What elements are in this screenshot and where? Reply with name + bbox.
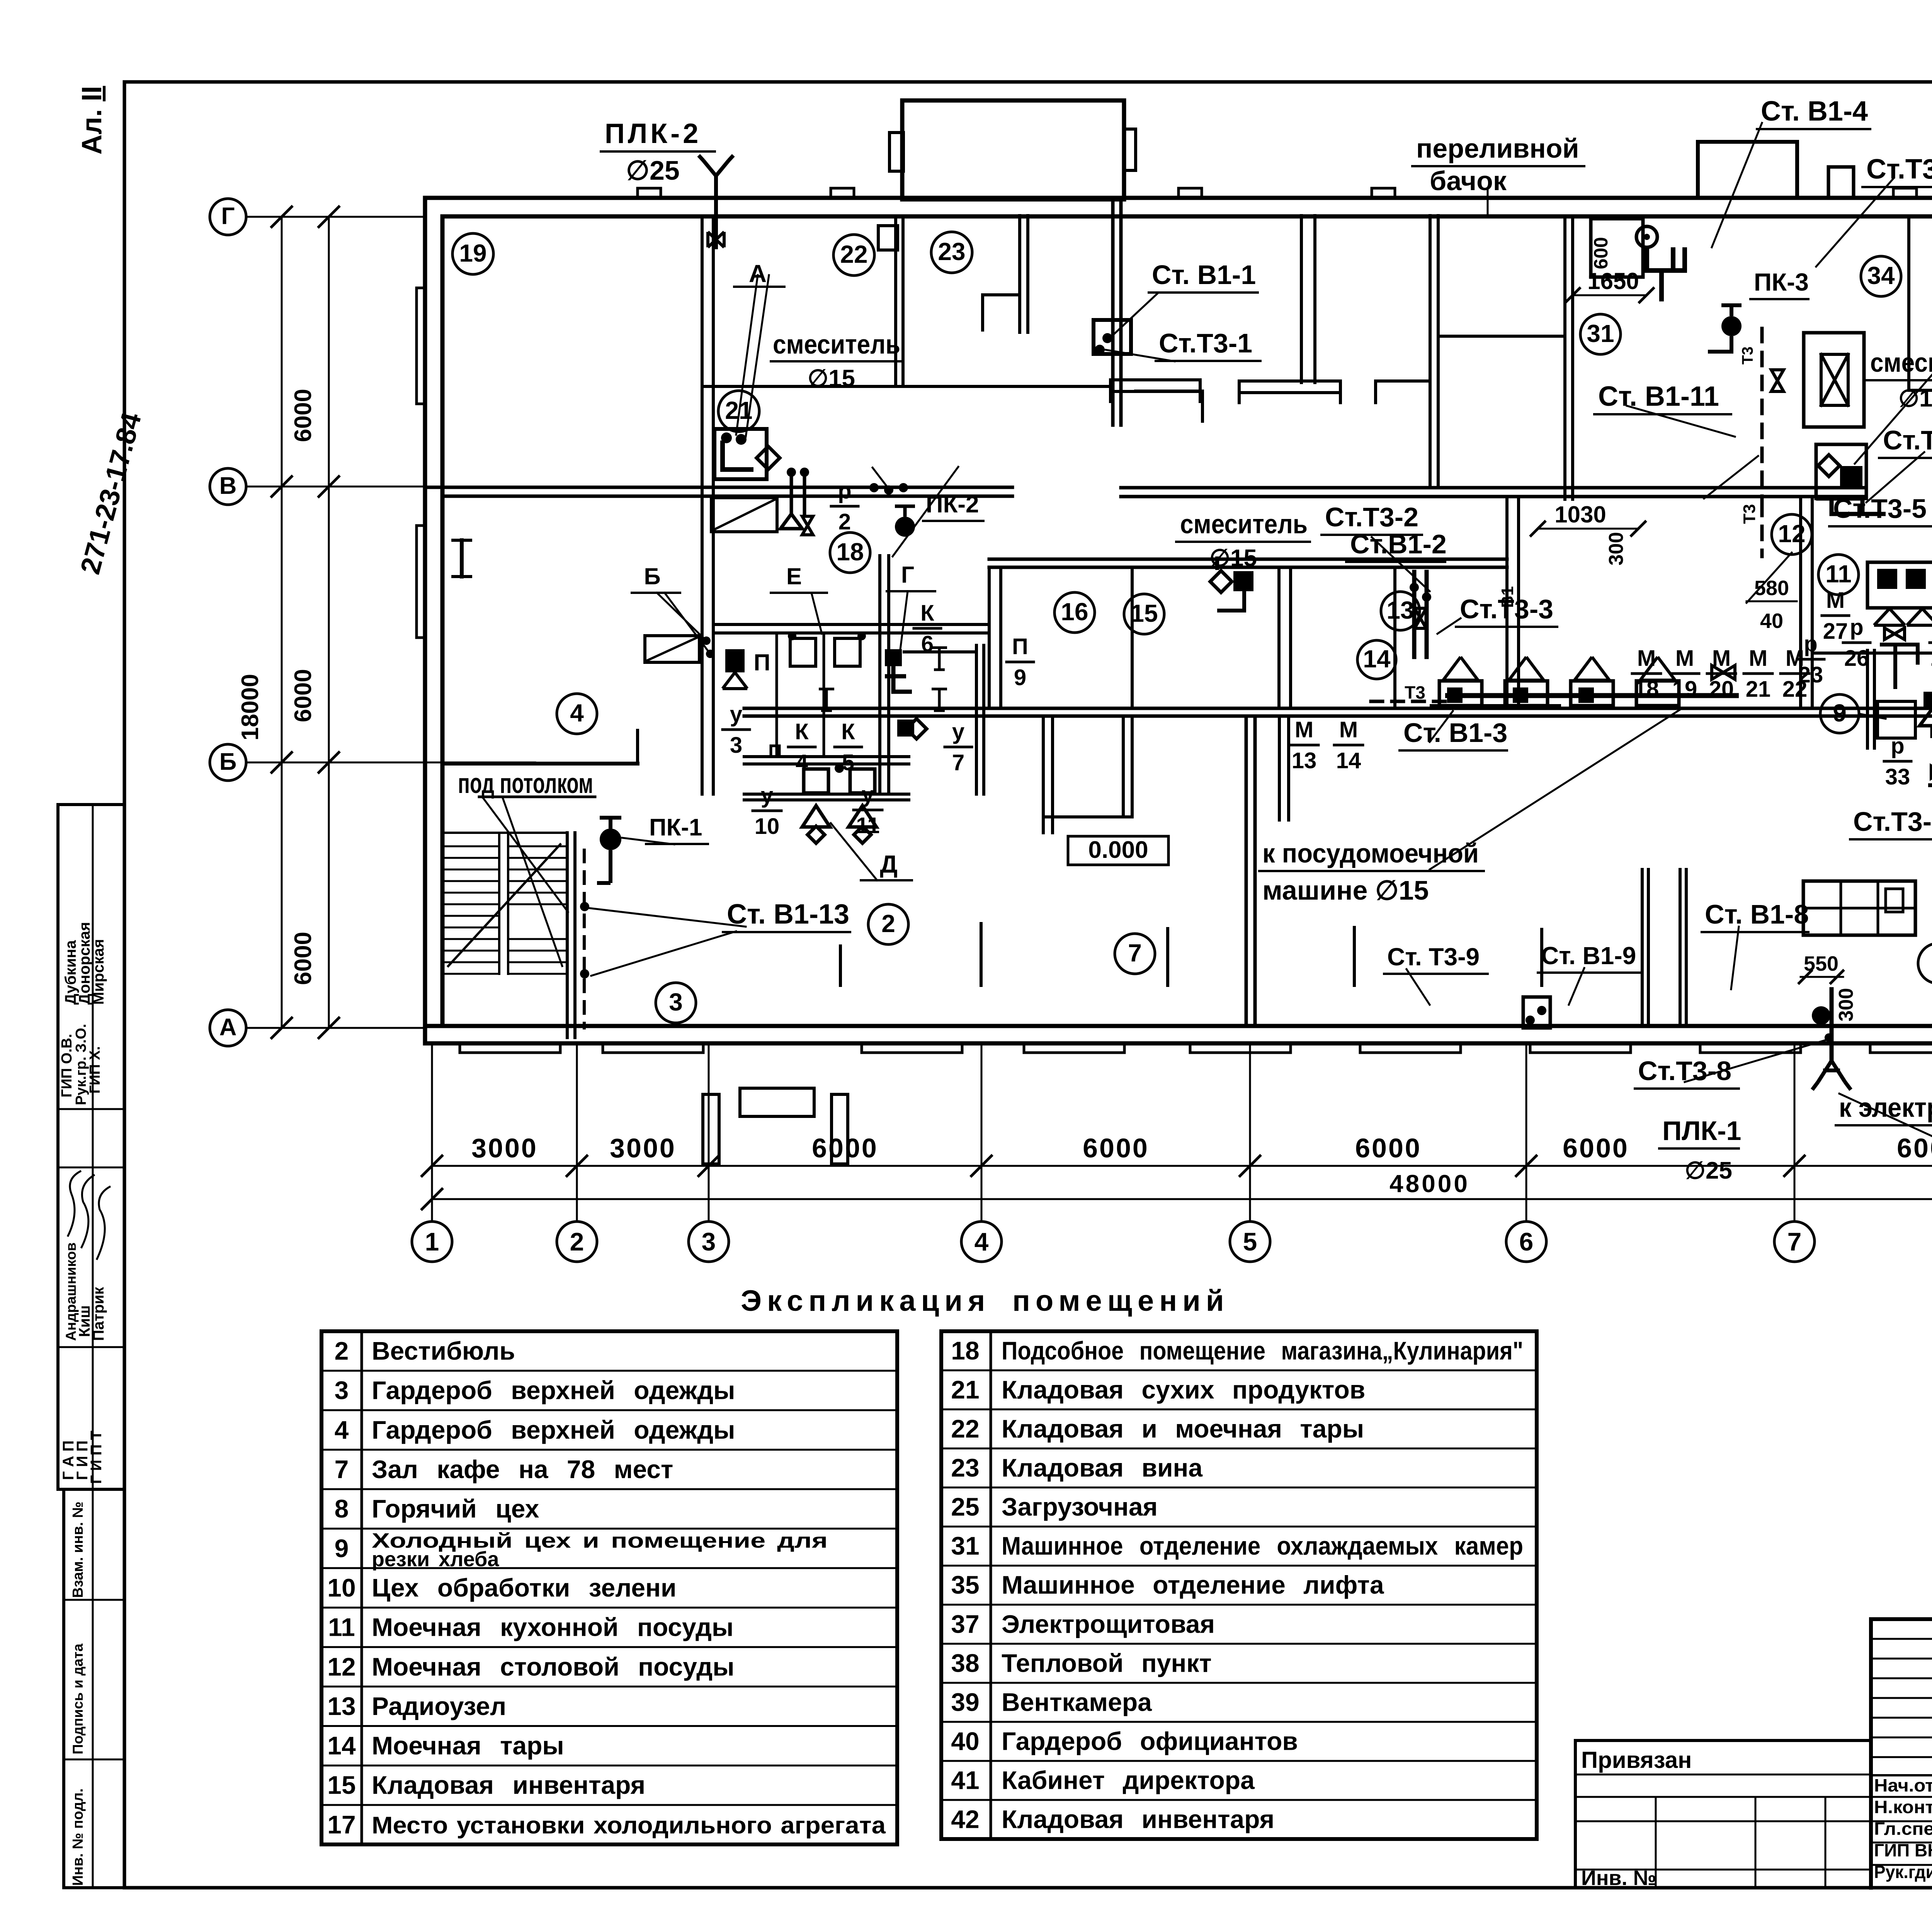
left block tap y3 <box>725 649 745 672</box>
svg-text:Место установки холодильного а: Место установки холодильного агрегата <box>372 1812 886 1839</box>
svg-text:8: 8 <box>335 1494 349 1523</box>
svg-text:2: 2 <box>881 910 895 937</box>
svg-text:11: 11 <box>856 813 879 838</box>
strip sink squares <box>804 769 828 793</box>
svg-text:40: 40 <box>1760 609 1783 633</box>
svg-text:22: 22 <box>840 240 867 268</box>
svg-text:Гл.спец.: Гл.спец. <box>1874 1819 1932 1839</box>
wall right of room 23 <box>1018 216 1021 332</box>
svg-text:Кабинет директора: Кабинет директора <box>1002 1766 1255 1795</box>
svg-text:ГИП О.В.: ГИП О.В. <box>59 1034 75 1097</box>
room circle 8 <box>1918 943 1932 983</box>
svg-text:13: 13 <box>327 1692 355 1720</box>
wall segment right of B1-1 <box>1136 390 1202 393</box>
svg-text:Моечная тары: Моечная тары <box>372 1731 564 1760</box>
room circle 9 <box>1820 694 1859 733</box>
svg-text:у: у <box>730 702 742 727</box>
svg-text:к электрокипятильнику: к электрокипятильнику <box>1839 1092 1932 1123</box>
leader lines <box>736 275 758 435</box>
axis Б line <box>246 762 535 764</box>
svg-text:11: 11 <box>1825 560 1852 588</box>
bottom axis circles <box>412 1222 452 1262</box>
room circle 11 <box>1818 555 1859 595</box>
svg-text:1: 1 <box>425 1227 439 1256</box>
svg-text:Тепловой пункт: Тепловой пункт <box>1002 1649 1212 1677</box>
sidebar stamp strip lower <box>64 1489 124 1888</box>
svg-text:13: 13 <box>1292 748 1317 773</box>
room circle 7 <box>1115 934 1155 974</box>
electro stove room 8 <box>1803 881 1915 935</box>
svg-text:Кладовая и моечная тары: Кладовая и моечная тары <box>1002 1414 1364 1443</box>
svg-text:37: 37 <box>951 1609 979 1638</box>
svg-text:41: 41 <box>951 1766 979 1795</box>
E fixtures rects <box>790 638 816 666</box>
svg-text:р: р <box>1804 631 1817 657</box>
tap pair above room 9 <box>1880 645 1918 689</box>
explication table left <box>321 1331 897 1844</box>
top wall pier marks <box>638 188 661 198</box>
PK-1 dark circle <box>600 829 621 850</box>
funnel M31 <box>1920 709 1932 738</box>
riser pipes room 13 <box>1412 572 1417 657</box>
svg-text:Экспликация: Экспликация <box>741 1284 990 1317</box>
svg-text:у: у <box>952 719 964 744</box>
dishwashing row fixtures <box>1443 657 1478 680</box>
svg-text:3: 3 <box>730 733 742 758</box>
svg-text:Ст. В1-11: Ст. В1-11 <box>1598 381 1719 412</box>
svg-text:∅25: ∅25 <box>1685 1157 1732 1184</box>
svg-text:18: 18 <box>836 538 864 566</box>
svg-text:15: 15 <box>1130 599 1158 627</box>
smesitel unit room 36 <box>1816 444 1866 498</box>
svg-text:38: 38 <box>951 1649 979 1677</box>
PLK-2 riser with valve <box>714 176 718 247</box>
strip funnels below <box>802 806 830 827</box>
label 18 circle <box>830 533 870 573</box>
bottom outer wall left block <box>425 1024 1932 1028</box>
svg-text:2: 2 <box>570 1227 584 1256</box>
svg-text:Венткамера: Венткамера <box>1002 1688 1152 1716</box>
wall top of room 21 <box>705 385 1113 388</box>
svg-text:18000: 18000 <box>237 674 264 740</box>
svg-text:6000: 6000 <box>1563 1133 1629 1163</box>
svg-text:23: 23 <box>951 1453 979 1482</box>
svg-text:10: 10 <box>755 814 780 839</box>
room circle 13 <box>1381 592 1420 630</box>
top outer wall <box>425 196 1932 200</box>
svg-text:9: 9 <box>1833 699 1847 727</box>
svg-text:15: 15 <box>327 1771 355 1799</box>
axis А line <box>246 1027 425 1029</box>
wall of loading area <box>1111 199 1115 425</box>
room 22 door leaf <box>878 226 898 250</box>
wall below Б (vestibule strip) <box>744 793 909 796</box>
svg-text:2: 2 <box>838 509 851 534</box>
T3-9/V1-9 wall fixture <box>1523 997 1550 1028</box>
svg-text:Взам. инв. №: Взам. инв. № <box>70 1502 86 1598</box>
PK-3 tap with dark circle <box>1721 316 1742 336</box>
svg-text:смеситель: смеситель <box>773 329 900 359</box>
svg-text:Ст.Т3-8: Ст.Т3-8 <box>1638 1056 1731 1086</box>
svg-text:ПЛК-2: ПЛК-2 <box>605 118 701 149</box>
svg-text:М: М <box>1826 588 1845 613</box>
axis Г circle <box>210 199 246 235</box>
T columns <box>819 689 834 711</box>
axis Б circle <box>210 744 246 781</box>
bottom wall sill marks <box>460 1043 560 1053</box>
svg-text:17: 17 <box>327 1810 355 1839</box>
svg-text:34: 34 <box>1867 262 1895 289</box>
svg-text:у: у <box>862 782 874 807</box>
svg-text:6000: 6000 <box>1355 1133 1422 1163</box>
svg-text:2: 2 <box>335 1337 349 1365</box>
wall along axis В center part <box>1121 486 1866 490</box>
riser cluster V1-12 <box>869 483 879 492</box>
svg-text:25: 25 <box>951 1492 979 1521</box>
svg-text:машине ∅15: машине ∅15 <box>1262 875 1429 905</box>
svg-text:1650: 1650 <box>1587 268 1639 294</box>
svg-text:18: 18 <box>1634 677 1659 702</box>
svg-text:П: П <box>753 650 770 675</box>
small protrusion near axis 7 <box>1828 167 1854 198</box>
T3 dashed line center <box>1760 502 1764 556</box>
storeroom benches <box>1111 380 1200 403</box>
svg-text:35: 35 <box>951 1570 979 1599</box>
svg-text:Зал кафе на 78 мест: Зал кафе на 78 мест <box>372 1455 673 1484</box>
svg-text:ГИП Х.: ГИП Х. <box>87 1046 103 1094</box>
axis В circle <box>210 468 246 505</box>
bottom dimension line 2 (48000) <box>432 1198 1932 1200</box>
overflow tank <box>1591 219 1643 277</box>
svg-text:Г: Г <box>221 203 235 230</box>
wall along axis В left part <box>425 486 1012 489</box>
svg-text:12: 12 <box>1778 520 1805 548</box>
svg-text:40: 40 <box>951 1727 979 1756</box>
wall between rooms 19 and 21 <box>701 216 704 794</box>
watering taps B <box>787 468 796 477</box>
sidebar stamp strip upper <box>58 805 124 1489</box>
elevator shaft room walls <box>1907 216 1910 390</box>
svg-text:10: 10 <box>327 1573 355 1602</box>
axis А circle <box>210 1010 246 1046</box>
svg-text:42: 42 <box>951 1805 979 1834</box>
svg-text:Ст. В1-3: Ст. В1-3 <box>1403 718 1507 748</box>
svg-text:6000: 6000 <box>1897 1133 1932 1163</box>
svg-text:к посудомоечной: к посудомоечной <box>1262 838 1479 868</box>
svg-text:К: К <box>920 601 934 626</box>
svg-text:7: 7 <box>952 750 964 775</box>
svg-text:Инв. № подл.: Инв. № подл. <box>70 1788 86 1886</box>
svg-text:3000: 3000 <box>610 1133 676 1163</box>
svg-text:резки хлеба: резки хлеба <box>372 1548 499 1571</box>
svg-text:300: 300 <box>1835 988 1857 1022</box>
svg-text:В: В <box>219 473 237 499</box>
room circle 34 <box>1861 256 1901 296</box>
svg-text:Г И П Т: Г И П Т <box>88 1431 105 1484</box>
svg-text:9: 9 <box>335 1534 349 1562</box>
svg-text:580: 580 <box>1754 577 1789 600</box>
svg-text:7: 7 <box>1787 1227 1802 1256</box>
privyazan box <box>1575 1739 1871 1742</box>
svg-text:4: 4 <box>335 1415 349 1444</box>
svg-text:Г: Г <box>901 562 914 588</box>
svg-text:Машинное отделение охлаждаемых: Машинное отделение охлаждаемых камер <box>1002 1531 1523 1560</box>
svg-text:11: 11 <box>328 1613 355 1642</box>
room 11 lower divider <box>1812 652 1932 655</box>
svg-text:7: 7 <box>335 1455 349 1484</box>
svg-text:Т3: Т3 <box>1405 682 1425 703</box>
T3 dashed riser near PK-3 <box>1760 328 1764 502</box>
svg-text:Ст.Т3-1: Ст.Т3-1 <box>1159 328 1252 358</box>
bottom wall entrance porch <box>740 1088 814 1116</box>
svg-text:Ст. Т3-9: Ст. Т3-9 <box>1387 943 1480 971</box>
svg-text:14: 14 <box>1363 645 1391 673</box>
svg-text:Загрузочная: Загрузочная <box>1002 1492 1158 1521</box>
room circle 4 <box>557 694 597 734</box>
room circle 19 <box>452 233 493 274</box>
kitchen band bottom wall <box>744 707 1932 710</box>
svg-text:20: 20 <box>1709 677 1734 702</box>
svg-text:6: 6 <box>1519 1227 1534 1256</box>
svg-text:21: 21 <box>1746 677 1771 702</box>
svg-text:Цех обработки зелени: Цех обработки зелени <box>372 1573 677 1602</box>
room circle 31 <box>1580 314 1621 354</box>
PLK-1 riser bottom <box>1830 989 1834 1061</box>
svg-text:300: 300 <box>1605 532 1628 566</box>
svg-text:31: 31 <box>1587 320 1614 347</box>
svg-text:Горячий цех: Горячий цех <box>372 1494 539 1523</box>
svg-text:7: 7 <box>1128 939 1142 967</box>
svg-text:Кладовая инвентаря: Кладовая инвентаря <box>1002 1805 1274 1834</box>
room circle 15 <box>1124 594 1164 634</box>
svg-text:Мирская: Мирская <box>90 939 107 1005</box>
svg-text:18: 18 <box>951 1336 979 1365</box>
small hoist shaft <box>1804 333 1864 427</box>
kitchen band verticals <box>988 567 991 708</box>
svg-text:Ст.Т3-4: Ст.Т3-4 <box>1866 154 1932 185</box>
svg-text:31: 31 <box>951 1531 979 1560</box>
room 23 bench <box>983 295 1020 332</box>
left outer wall <box>423 198 427 1043</box>
svg-text:23: 23 <box>938 238 965 265</box>
svg-text:5: 5 <box>842 750 854 775</box>
bottom axis extension lines <box>431 1043 433 1220</box>
wall left of room 34 <box>1563 216 1566 499</box>
svg-text:р: р <box>838 478 851 504</box>
svg-text:Ст.В1-2: Ст.В1-2 <box>1350 529 1447 559</box>
svg-text:В1: В1 <box>1498 586 1517 608</box>
I-beam mark above hall <box>460 540 464 577</box>
smesitel fixture A room 21 <box>714 429 767 479</box>
svg-text:Электрощитовая: Электрощитовая <box>1002 1609 1215 1638</box>
svg-text:3: 3 <box>669 988 683 1016</box>
T3-6 fixture <box>1931 766 1932 778</box>
axis В line <box>246 486 425 488</box>
left small-room block walls <box>714 623 989 626</box>
svg-text:Подсобное помещение магазина„: Подсобное помещение магазина„Кулинария" <box>1002 1336 1523 1365</box>
room circle 23 <box>931 232 972 273</box>
svg-text:19: 19 <box>459 239 486 267</box>
svg-text:6: 6 <box>921 631 934 657</box>
svg-text:Ал. II: Ал. II <box>77 86 107 155</box>
G dark cluster <box>885 649 902 666</box>
svg-text:6000: 6000 <box>1083 1133 1149 1163</box>
svg-text:Н.контр.: Н.контр. <box>1874 1797 1932 1817</box>
svg-text:помещений: помещений <box>1012 1284 1230 1317</box>
room circle 14 <box>1357 640 1396 679</box>
svg-text:4: 4 <box>975 1227 989 1256</box>
svg-text:р: р <box>1891 733 1904 759</box>
left staircase treads <box>442 846 499 847</box>
room 11 wash fixtures <box>1867 562 1932 608</box>
svg-text:Т3: Т3 <box>1740 504 1759 524</box>
wall right of stairs <box>566 833 569 1038</box>
T3-8 fixture marks <box>1825 1033 1833 1042</box>
storeroom divider wall <box>1300 216 1303 383</box>
svg-text:6000: 6000 <box>290 389 316 442</box>
svg-text:р: р <box>1850 615 1863 640</box>
svg-text:М: М <box>1749 646 1767 671</box>
kitchen band top wall <box>989 558 1507 561</box>
svg-text:Машинное отделение лифта: Машинное отделение лифта <box>1002 1570 1384 1599</box>
svg-text:М: М <box>1339 717 1358 742</box>
room circle 16 <box>1054 592 1095 633</box>
svg-text:4: 4 <box>570 699 584 727</box>
wall top of stairs block <box>442 832 567 834</box>
room 31/34 divider horizontal <box>1438 335 1565 338</box>
svg-text:Ст.Т3-4: Ст.Т3-4 <box>1883 425 1932 455</box>
svg-text:12: 12 <box>327 1652 355 1681</box>
svg-text:0.000: 0.000 <box>1088 837 1148 863</box>
room circle 3 <box>656 983 696 1023</box>
svg-text:14: 14 <box>1336 748 1361 773</box>
sheet frame <box>124 80 1932 84</box>
svg-text:бачок: бачок <box>1430 166 1507 196</box>
hall column marks <box>839 946 842 985</box>
left wall window recesses <box>417 288 426 404</box>
svg-text:Моечная кухонной посуды: Моечная кухонной посуды <box>372 1613 733 1642</box>
svg-text:19: 19 <box>1672 677 1697 702</box>
left dimension vertical lines <box>281 217 283 1028</box>
svg-text:∅15: ∅15 <box>808 365 855 392</box>
svg-text:3000: 3000 <box>471 1133 538 1163</box>
svg-text:Д: Д <box>880 850 898 878</box>
wall along axis Б <box>442 762 638 766</box>
svg-text:26: 26 <box>1844 646 1869 671</box>
svg-text:1030: 1030 <box>1554 502 1606 527</box>
shelf rect room 4 <box>645 636 699 662</box>
svg-text:П: П <box>1012 634 1028 659</box>
svg-text:Ст. В1-9: Ст. В1-9 <box>1541 942 1636 970</box>
svg-text:13: 13 <box>1386 596 1414 624</box>
svg-text:∅15: ∅15 <box>1898 385 1932 412</box>
svg-text:16: 16 <box>1061 598 1088 626</box>
svg-text:Патрик: Патрик <box>90 1286 107 1341</box>
svg-text:А: А <box>749 260 767 288</box>
svg-text:Моечная столовой посуды: Моечная столовой посуды <box>372 1652 735 1681</box>
bottom dimension line 1 <box>432 1165 1932 1167</box>
svg-text:Т3: Т3 <box>1739 347 1756 365</box>
vestibule 2 dashed riser В1-13 <box>583 850 586 1028</box>
wall between rooms 22 and 23 <box>894 216 897 386</box>
svg-text:Ст. В1-1: Ст. В1-1 <box>1152 260 1256 290</box>
svg-text:27: 27 <box>1823 619 1848 644</box>
sink row dark squares room 12 <box>1447 687 1463 703</box>
svg-text:Подпись и дата: Подпись и дата <box>70 1643 86 1754</box>
svg-text:Гардероб официантов: Гардероб официантов <box>1002 1727 1298 1756</box>
svg-text:Кладовая инвентаря: Кладовая инвентаря <box>372 1771 645 1799</box>
svg-text:∅25: ∅25 <box>626 155 680 185</box>
svg-text:М: М <box>1712 646 1731 671</box>
overflow-tank shaft protrusion <box>1698 142 1797 198</box>
smesitel fixture room 14 <box>1210 571 1232 592</box>
svg-text:Привязан: Привязан <box>1581 1747 1692 1773</box>
svg-text:Ст.Т3-2: Ст.Т3-2 <box>1325 502 1418 532</box>
svg-text:Радиоузел: Радиоузел <box>372 1692 506 1720</box>
smesitel unit room 36 symbols <box>1818 455 1840 476</box>
svg-text:К: К <box>795 719 809 744</box>
svg-text:А: А <box>219 1014 237 1041</box>
svg-text:21: 21 <box>951 1375 979 1404</box>
svg-text:Б: Б <box>219 749 237 775</box>
svg-text:у: у <box>761 783 773 808</box>
svg-text:14: 14 <box>327 1731 356 1760</box>
svg-text:22: 22 <box>951 1414 979 1443</box>
svg-text:М: М <box>1675 646 1694 671</box>
svg-text:М: М <box>1295 717 1313 742</box>
left staircase diagonal <box>448 844 560 966</box>
room circle 12 <box>1772 514 1812 555</box>
svg-text:смеситель: смеситель <box>1870 347 1932 378</box>
svg-text:Ст.Т3-5: Ст.Т3-5 <box>1833 493 1927 524</box>
wall between hall 7 and hot shop 8 <box>1245 716 1248 1026</box>
vestibule protrusion above top wall <box>902 100 1124 199</box>
svg-text:Б: Б <box>644 563 660 589</box>
svg-text:6000: 6000 <box>290 669 316 722</box>
svg-text:Е: Е <box>786 563 802 589</box>
svg-text:Ст.Т3-6: Ст.Т3-6 <box>1853 806 1932 837</box>
wall left of room 31 <box>1429 216 1432 487</box>
svg-text:48000: 48000 <box>1389 1170 1470 1198</box>
svg-text:Ст. В1-4: Ст. В1-4 <box>1761 96 1868 127</box>
svg-text:Кладовая сухих продуктов: Кладовая сухих продуктов <box>1002 1375 1365 1404</box>
svg-text:Рук.гдин.: Рук.гдин. <box>1874 1862 1932 1882</box>
room circle 2 <box>868 904 908 944</box>
svg-text:Ст. В1-8: Ст. В1-8 <box>1705 899 1809 929</box>
svg-text:23: 23 <box>1798 662 1823 687</box>
svg-text:600: 600 <box>1590 237 1612 269</box>
svg-text:Гардероб верхней одежды: Гардероб верхней одежды <box>372 1415 735 1444</box>
svg-text:Гардероб верхней одежды: Гардероб верхней одежды <box>372 1376 735 1405</box>
svg-text:К: К <box>841 719 855 744</box>
wall fixture St V1-1 / T3-1 <box>1094 320 1131 354</box>
room circle 22 <box>833 235 874 276</box>
svg-text:смеситель: смеситель <box>1180 509 1308 539</box>
svg-text:5: 5 <box>1243 1227 1257 1256</box>
svg-text:Вестибюль: Вестибюль <box>372 1337 515 1365</box>
hall partition stubs near room 8 <box>1641 869 1644 1026</box>
svg-text:21: 21 <box>725 396 752 424</box>
svg-text:ПК-1: ПК-1 <box>649 814 702 841</box>
title block outer <box>1871 1617 1932 1621</box>
svg-text:ПК-3: ПК-3 <box>1754 268 1809 296</box>
svg-text:М: М <box>1637 646 1656 671</box>
zero level box <box>1068 836 1168 865</box>
sanitary room walls below band <box>1042 716 1045 833</box>
svg-text:6000: 6000 <box>290 932 316 985</box>
svg-text:переливной: переливной <box>1416 133 1579 163</box>
room circle 21 <box>718 391 759 432</box>
